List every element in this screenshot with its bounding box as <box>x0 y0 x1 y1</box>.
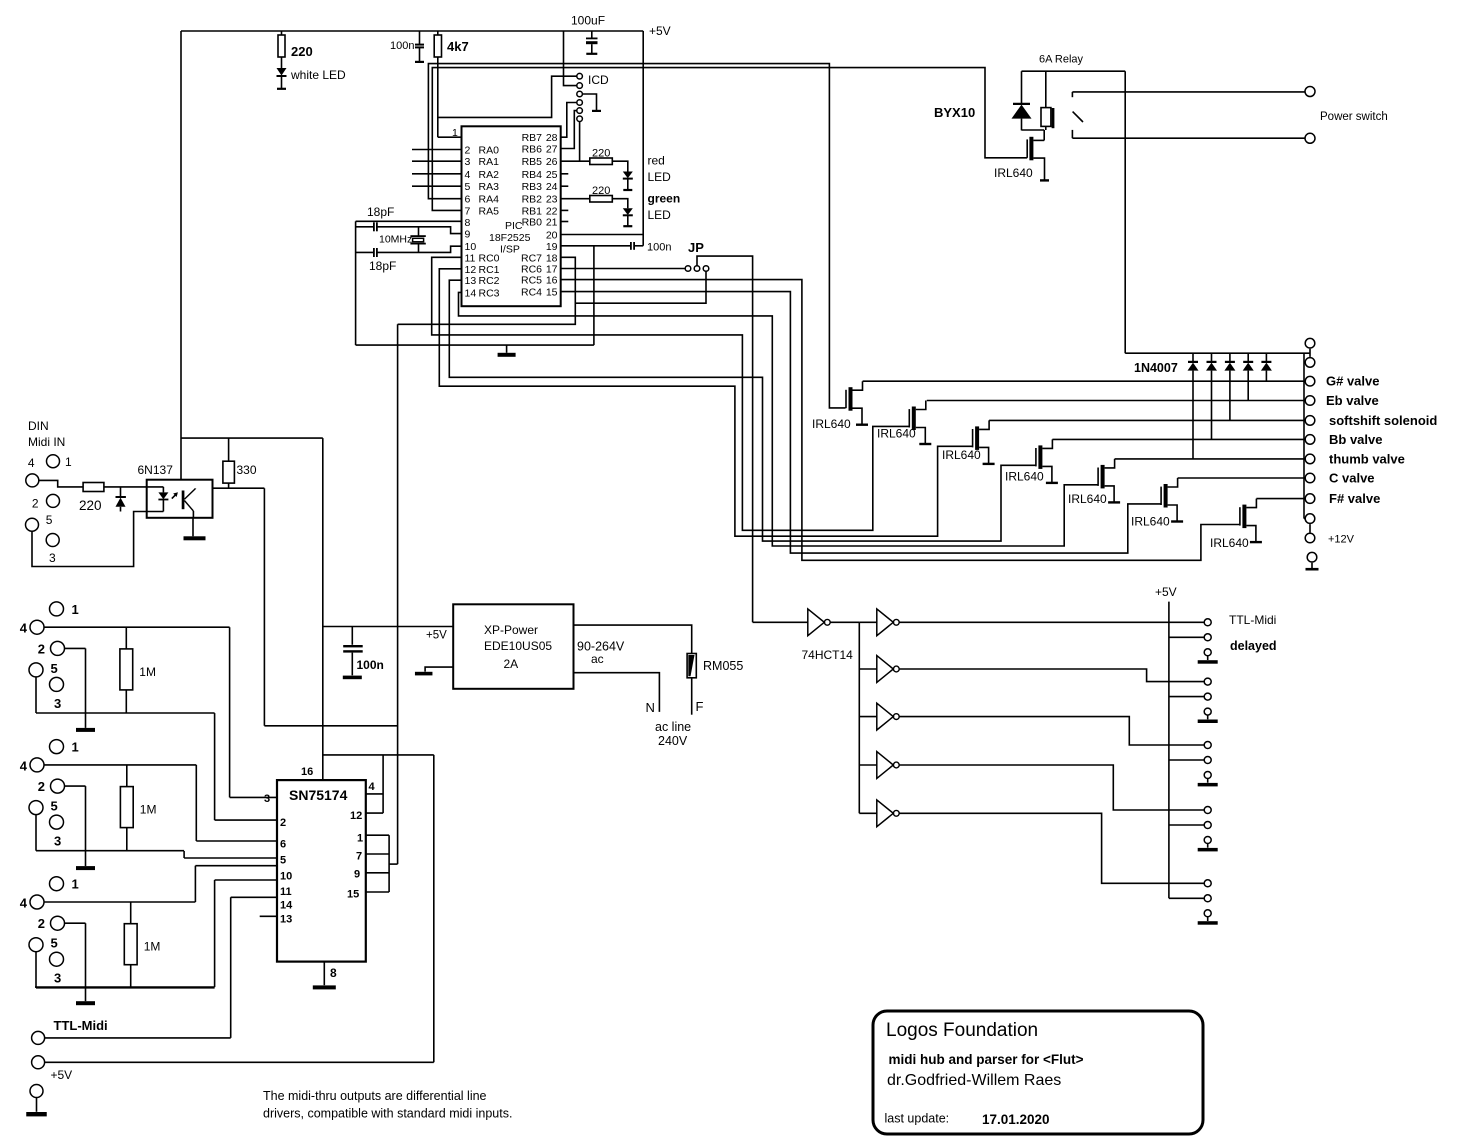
svg-text:1: 1 <box>452 127 458 139</box>
svg-text:16: 16 <box>301 766 313 778</box>
svg-text:18pF: 18pF <box>367 205 394 219</box>
fuse RM055 <box>687 654 696 678</box>
svg-text:RA5: RA5 <box>479 205 500 217</box>
wire pin 5 to group2 pin5 <box>184 857 277 859</box>
resistor 220 (red LED) <box>561 160 590 162</box>
transistor Q0 IRL640 (relay driver) <box>1043 130 1045 140</box>
wire Bb valve <box>1052 438 1304 440</box>
capacitor 100uF <box>591 31 593 38</box>
svg-text:24: 24 <box>546 181 558 193</box>
svg-text:RC0: RC0 <box>479 252 500 264</box>
capacitor 18pF bottom <box>356 251 374 253</box>
transistor Q5 IRL640 <box>1101 465 1105 489</box>
wire fuse to F <box>691 678 693 715</box>
svg-text:7: 7 <box>356 851 362 863</box>
wire out2 pin5 line <box>35 815 37 851</box>
svg-text:+12V: +12V <box>1328 534 1355 546</box>
ground shield out2 <box>65 785 86 787</box>
svg-text:DIN: DIN <box>28 419 49 433</box>
connector TTL-Midi delayed 2 gnd <box>1204 708 1211 715</box>
svg-text:5: 5 <box>280 855 286 867</box>
svg-text:+5V: +5V <box>426 630 447 642</box>
svg-text:RC2: RC2 <box>479 275 500 287</box>
svg-text:3: 3 <box>54 834 61 849</box>
ground 6N137 <box>192 518 194 537</box>
svg-text:220: 220 <box>592 185 610 197</box>
connector DIN out2 pin 2 <box>51 779 65 793</box>
wire coil bottom link <box>1022 129 1045 131</box>
inverter U3F 74HCT14 <box>859 812 877 814</box>
svg-text:RC4: RC4 <box>521 287 542 299</box>
wire RC1 to M3 gate <box>439 269 972 536</box>
driver U2 SN75174 <box>277 780 366 962</box>
wire pin 11 to group3 pin5 <box>215 879 277 881</box>
connector TTL-Midi out <box>32 1031 45 1044</box>
svg-text:1: 1 <box>72 740 79 755</box>
svg-text:IRL640: IRL640 <box>942 448 981 462</box>
svg-text:RC7: RC7 <box>521 252 542 264</box>
svg-text:F: F <box>696 699 704 714</box>
connector power switch top <box>1305 87 1315 97</box>
svg-text:IRL640: IRL640 <box>812 417 851 431</box>
svg-text:TTL-Midi: TTL-Midi <box>54 1018 108 1033</box>
svg-text:3: 3 <box>54 696 61 711</box>
connector ICD pin 3 <box>577 91 583 97</box>
svg-text:18pF: 18pF <box>369 259 396 273</box>
connector +5V in <box>32 1056 45 1069</box>
wire RA4 to IRL640 M1 gate (line A) <box>428 64 845 408</box>
wire +5V left vertical to 6N137 <box>180 31 182 480</box>
svg-text:midi hub and parser for <Flut>: midi hub and parser for <Flut> <box>889 1052 1084 1067</box>
svg-text:2: 2 <box>280 817 286 829</box>
svg-text:+5V: +5V <box>51 1068 73 1082</box>
connector TTL-Midi delayed 4 gnd <box>1204 837 1211 844</box>
svg-text:25: 25 <box>546 169 558 181</box>
connector TTL-Midi delayed 3 gnd <box>1204 772 1211 779</box>
connector DIN out2 pin 3 <box>50 815 64 829</box>
wire opto cathode return to DIN5 <box>32 512 147 567</box>
opto internal transistor <box>182 491 185 510</box>
svg-text:Bb valve: Bb valve <box>1329 432 1382 447</box>
wire cap to pin 9 <box>377 227 461 234</box>
resistor 1M #2 <box>126 765 128 787</box>
ground shield out3 <box>65 922 86 924</box>
wire ICD6 to pin 26 net <box>579 122 581 162</box>
svg-text:Logos Foundation: Logos Foundation <box>886 1020 1038 1041</box>
connector TTL-Midi delayed 2 +5V <box>1204 693 1211 700</box>
connector DIN out1 pin 2 <box>51 641 65 655</box>
connector Bb valve <box>1305 435 1315 445</box>
svg-text:4: 4 <box>20 621 28 636</box>
wire inverter bus <box>830 621 859 623</box>
svg-text:IRL640: IRL640 <box>1005 470 1044 484</box>
diode BYX10 <box>1021 71 1023 103</box>
inverter U3C 74HCT14 <box>859 668 877 670</box>
wire pin 19 VSS drop <box>593 246 595 345</box>
svg-text:2: 2 <box>38 641 45 656</box>
diode 1N4007 #1 <box>1265 353 1267 361</box>
svg-text:9: 9 <box>465 229 471 241</box>
svg-text:12: 12 <box>350 810 362 822</box>
diode 1N4007 #5 <box>1192 353 1194 361</box>
transistor Q7 IRL640 <box>1242 505 1246 528</box>
svg-text:21: 21 <box>546 217 558 229</box>
svg-text:1M: 1M <box>139 665 156 679</box>
wire RC2 to M4 gate <box>449 280 1035 541</box>
crystal 10MHz <box>418 227 420 236</box>
connector DIN midi-in pin 4 <box>26 474 39 487</box>
wire ICD2 to +5V rail <box>564 31 577 86</box>
connector DIN midi-in pin 1 <box>47 455 60 468</box>
svg-text:1: 1 <box>72 877 79 892</box>
svg-text:5: 5 <box>51 799 58 814</box>
svg-text:IRL640: IRL640 <box>877 427 916 441</box>
svg-text:74HCT14: 74HCT14 <box>802 648 854 662</box>
svg-text:ICD: ICD <box>588 73 609 87</box>
capacitor 18pF top <box>356 226 374 228</box>
svg-text:8: 8 <box>330 966 337 980</box>
svg-text:ac line: ac line <box>655 720 691 734</box>
svg-text:220: 220 <box>592 148 610 160</box>
svg-text:4: 4 <box>465 169 471 181</box>
wire +5V branch DIN area <box>181 437 323 439</box>
svg-text:7: 7 <box>465 205 471 217</box>
transistor Q1 IRL640 <box>849 387 853 411</box>
wire out3 pin5 line <box>35 952 37 988</box>
connector DIN out3 pin 1 <box>50 877 64 891</box>
svg-text:softshift solenoid: softshift solenoid <box>1329 413 1437 428</box>
wire ICD3 to ground <box>582 94 596 110</box>
connector TTL-Midi delayed 1 +5V <box>1204 634 1211 641</box>
connector TTL-Midi delayed 1 gnd <box>1204 649 1211 656</box>
wire +5V stub 2 <box>1169 696 1205 698</box>
svg-text:EDE10US05: EDE10US05 <box>484 639 552 653</box>
svg-text:Midi IN: Midi IN <box>28 435 65 449</box>
opto internal LED <box>147 486 164 488</box>
svg-text:4k7: 4k7 <box>447 39 469 54</box>
connector DIN midi-in pin 2 <box>47 494 60 507</box>
svg-text:15: 15 <box>347 889 359 901</box>
svg-text:green: green <box>648 192 681 206</box>
wire VSS line <box>356 344 594 346</box>
svg-text:19: 19 <box>546 241 558 253</box>
svg-text:6: 6 <box>280 839 286 851</box>
wire inverter output 4 <box>899 765 1205 810</box>
svg-text:18: 18 <box>546 252 558 264</box>
wire inverter output 5 <box>899 813 1205 883</box>
svg-text:thumb valve: thumb valve <box>1329 451 1405 466</box>
svg-text:JP: JP <box>688 240 704 255</box>
svg-text:RC5: RC5 <box>521 275 542 287</box>
connector JP pin 2 <box>694 266 700 272</box>
svg-text:11: 11 <box>280 886 292 898</box>
wire out1 pin4 line <box>44 626 230 628</box>
wire valve connector column <box>1303 353 1305 518</box>
wire 4k7 to pin 1 <box>437 57 439 137</box>
svg-text:330: 330 <box>237 463 257 477</box>
svg-text:16: 16 <box>546 275 558 287</box>
svg-text:2: 2 <box>465 145 471 157</box>
svg-text:3: 3 <box>465 156 471 168</box>
svg-text:6N137: 6N137 <box>138 463 174 477</box>
connector DIN midi-in pin 3 <box>46 534 59 547</box>
connector Eb valve <box>1305 396 1315 406</box>
svg-text:C valve: C valve <box>1329 471 1375 486</box>
capacitor 100n (xp output) <box>351 627 353 645</box>
relay coil 6A Relay <box>1045 71 1047 107</box>
wire RC3 to M5 gate <box>459 292 1098 546</box>
wire 6N137 data to SN75174 <box>264 725 397 727</box>
wire RC5 to M7 gate <box>561 280 1240 561</box>
resistor 330 pullup <box>228 438 230 461</box>
svg-text:10: 10 <box>280 871 292 883</box>
wire pin 17 RC6 to JP1 <box>561 268 686 270</box>
transistor Q6 IRL640 <box>1164 484 1168 508</box>
ground SN75174 pin 8 <box>323 962 325 986</box>
svg-text:23: 23 <box>546 194 558 206</box>
connector ICD pin 5 <box>577 108 583 114</box>
connector TTL-Midi delayed 5 gnd <box>1204 910 1211 917</box>
wire inverter output 3 <box>899 717 1205 745</box>
ground symbol VSS <box>506 345 508 353</box>
wire RC0 to M2 gate <box>432 257 909 530</box>
svg-text:6: 6 <box>465 194 471 206</box>
wire crystal left vertical <box>355 221 357 345</box>
svg-text:15: 15 <box>546 287 558 299</box>
svg-text:drivers, compatible with stand: drivers, compatible with standard midi i… <box>263 1107 512 1121</box>
wire 220 to opto <box>104 486 147 488</box>
relay switch arm <box>1073 112 1083 122</box>
wire thumb valve <box>1115 458 1305 460</box>
wire out3 pin4 line <box>44 901 195 903</box>
connector ICD pin 4 <box>577 100 583 106</box>
wire +5V stub 4 <box>1169 824 1205 826</box>
wire +5V stub 3 <box>1169 759 1205 761</box>
title block Logos Foundation <box>873 1011 1203 1134</box>
svg-text:RB3: RB3 <box>522 181 543 193</box>
opto internal arrow <box>172 494 177 499</box>
svg-text:RC1: RC1 <box>479 264 500 276</box>
diode 1N4007 #3 <box>1229 353 1231 361</box>
svg-text:1: 1 <box>357 833 363 845</box>
svg-text:100uF: 100uF <box>571 14 605 28</box>
svg-text:5: 5 <box>51 936 58 951</box>
svg-text:4: 4 <box>28 456 35 470</box>
resistor 220 (green LED) <box>561 198 590 200</box>
connector +12V pair bottom <box>1305 514 1315 524</box>
wire XP +5V output <box>323 626 453 628</box>
connector TTL-Midi delayed 5 +5V <box>1204 895 1211 902</box>
svg-text:IRL640: IRL640 <box>1210 536 1249 550</box>
wire RC4 to M6 gate <box>561 292 1161 553</box>
wire inverter output 2 <box>899 669 1205 682</box>
svg-text:1M: 1M <box>144 940 161 954</box>
svg-text:TTL-Midi: TTL-Midi <box>1229 613 1276 627</box>
svg-text:IRL640: IRL640 <box>994 166 1033 180</box>
svg-text:8: 8 <box>465 217 471 229</box>
wire stubs pins 25 24 22 21 <box>561 173 569 175</box>
svg-text:+5V: +5V <box>1155 585 1177 599</box>
svg-text:5: 5 <box>46 513 53 527</box>
connector C valve <box>1305 473 1315 483</box>
svg-text:3: 3 <box>54 971 61 986</box>
diode 1N4007 #2 <box>1247 353 1249 361</box>
wire pin 14 to TTL-Midi out <box>231 896 277 898</box>
connector DIN out1 pin 3 <box>50 677 64 691</box>
svg-text:last update:: last update: <box>885 1112 950 1126</box>
transistor Q4 IRL640 <box>1038 445 1042 469</box>
wire pin 2 to group1 pin5 <box>215 819 277 821</box>
wire cap to pin 10 <box>377 246 461 252</box>
svg-text:The midi-thru outputs are diff: The midi-thru outputs are differential l… <box>263 1089 487 1103</box>
svg-text:ac: ac <box>591 652 604 666</box>
svg-text:220: 220 <box>291 44 313 59</box>
connector ground bottom <box>30 1085 43 1098</box>
svg-text:IRL640: IRL640 <box>1068 492 1107 506</box>
wire stubs RA0-RA3 <box>412 149 462 151</box>
wire F# valve <box>1256 498 1304 500</box>
ground bottom <box>36 1098 38 1112</box>
wire +5V to PIC pin 20 (VDD) <box>642 31 644 246</box>
svg-text:11: 11 <box>465 252 476 264</box>
svg-text:RB0: RB0 <box>522 217 543 229</box>
connector ground terminal <box>1307 552 1317 562</box>
svg-text:RA2: RA2 <box>479 169 500 181</box>
svg-text:220: 220 <box>79 498 102 513</box>
svg-text:13: 13 <box>280 914 292 926</box>
wire pin 8 VSS <box>356 220 462 222</box>
connector DIN out1 pin 4 <box>30 620 44 634</box>
wire inverter output 1 <box>899 621 1205 623</box>
svg-text:100n: 100n <box>357 658 384 672</box>
inverter U3D 74HCT14 <box>859 716 877 718</box>
svg-text:9: 9 <box>354 869 360 881</box>
svg-text:26: 26 <box>546 156 558 168</box>
svg-text:dr.Godfried-Willem Raes: dr.Godfried-Willem Raes <box>887 1072 1061 1089</box>
wire pin 18 RC7 RX net <box>398 257 576 324</box>
diode 1N4007 #4 <box>1211 353 1213 361</box>
svg-text:6A Relay: 6A Relay <box>1039 53 1084 65</box>
wire pin 6 to group2 pin4 <box>196 840 277 842</box>
svg-text:RB4: RB4 <box>522 169 543 181</box>
connector G# valve <box>1305 376 1315 386</box>
connector DIN out3 pin 4 <box>30 895 44 909</box>
svg-text:4: 4 <box>20 896 28 911</box>
connector TTL-Midi delayed 3 signal <box>1204 742 1211 749</box>
wire +5V vertical to SN75174 <box>322 438 324 780</box>
LED red <box>612 161 628 171</box>
ground tick ICD <box>592 110 601 112</box>
svg-text:3: 3 <box>49 551 56 565</box>
svg-text:2: 2 <box>32 497 39 511</box>
svg-text:RA4: RA4 <box>479 194 500 206</box>
wire softshift solenoid <box>989 419 1304 421</box>
wire XP ac neutral <box>574 673 660 712</box>
wire +5V terminal <box>45 1061 434 1063</box>
svg-text:RA1: RA1 <box>479 156 500 168</box>
svg-text:RB2: RB2 <box>522 194 543 206</box>
svg-text:13: 13 <box>465 275 477 287</box>
connector JP pin 1 <box>685 266 691 272</box>
ground shield out1 <box>65 647 86 649</box>
connector TTL-Midi delayed 2 signal <box>1204 678 1211 685</box>
svg-text:LED: LED <box>648 170 672 184</box>
wire JP3 to RX net <box>575 271 706 303</box>
connector DIN out1 pin 5 <box>29 663 43 677</box>
wire RX data vertical <box>397 324 399 864</box>
svg-text:G# valve: G# valve <box>1326 374 1380 389</box>
connector DIN midi-in pin 5 <box>26 518 39 531</box>
svg-text:Power switch: Power switch <box>1320 111 1388 123</box>
wire ICD1 to MCLR net <box>438 76 577 117</box>
svg-text:RC3: RC3 <box>479 287 500 299</box>
svg-text:5: 5 <box>465 181 471 193</box>
wire +12V rail from relay <box>1124 71 1126 353</box>
connector DIN out2 pin 5 <box>29 801 43 815</box>
svg-text:+5V: +5V <box>649 24 671 38</box>
wire out1 pin5 line <box>35 677 37 713</box>
connector DIN out1 pin 1 <box>50 602 64 616</box>
svg-text:2: 2 <box>38 916 45 931</box>
connector ICD pin 2 <box>577 83 583 89</box>
wire G# valve <box>863 380 1305 382</box>
connector TTL-Midi delayed 1 signal <box>1204 619 1211 626</box>
optocoupler 6N137 <box>147 480 213 518</box>
LED white <box>281 57 283 68</box>
connector DIN out2 pin 1 <box>50 740 64 754</box>
svg-text:BYX10: BYX10 <box>934 105 975 120</box>
svg-text:RA0: RA0 <box>479 145 500 157</box>
wire pin 10 to group3 pin4 <box>195 865 277 867</box>
svg-text:2A: 2A <box>504 657 519 671</box>
connector DIN out3 pin 5 <box>29 938 43 952</box>
svg-text:IRL640: IRL640 <box>1131 515 1170 529</box>
microcontroller U1 PIC 18F2525 <box>462 126 561 306</box>
connector F# valve <box>1305 494 1315 504</box>
svg-text:Eb valve: Eb valve <box>1326 393 1379 408</box>
wire RA5 to relay IRL640 gate (line B) <box>432 68 1027 211</box>
svg-text:14: 14 <box>465 287 477 299</box>
svg-text:5: 5 <box>51 661 58 676</box>
transistor Q3 IRL640 <box>975 426 979 450</box>
svg-text:I/SP: I/SP <box>500 244 520 256</box>
power supply XP-Power box <box>453 604 573 689</box>
svg-text:RA3: RA3 <box>479 181 500 193</box>
svg-text:1: 1 <box>72 602 79 617</box>
connector TTL-Midi delayed 5 signal <box>1204 880 1211 887</box>
resistor 1M #1 <box>125 627 127 649</box>
resistor 1M #3 <box>130 902 132 924</box>
svg-text:1: 1 <box>65 455 72 469</box>
svg-text:delayed: delayed <box>1230 639 1277 653</box>
connector +12V pair top <box>1305 338 1315 348</box>
svg-text:SN75174: SN75174 <box>289 787 348 803</box>
connector TTL-Midi delayed 4 +5V <box>1204 822 1211 829</box>
svg-text:1M: 1M <box>140 803 157 817</box>
svg-text:240V: 240V <box>658 734 688 748</box>
resistor 220 (midi in) <box>83 483 104 492</box>
resistor 220 (white LED) <box>281 31 283 35</box>
wire +5V top rail <box>181 30 643 32</box>
wire pin 13 stub <box>260 915 277 917</box>
svg-text:20: 20 <box>546 230 558 242</box>
diode protection (midi in) <box>120 487 122 497</box>
wire data to pins 1 7 9 15 <box>366 834 389 836</box>
svg-text:17.01.2020: 17.01.2020 <box>982 1112 1050 1127</box>
wire C valve <box>1178 477 1305 479</box>
svg-text:white LED: white LED <box>290 68 346 82</box>
svg-text:100n: 100n <box>390 40 414 52</box>
